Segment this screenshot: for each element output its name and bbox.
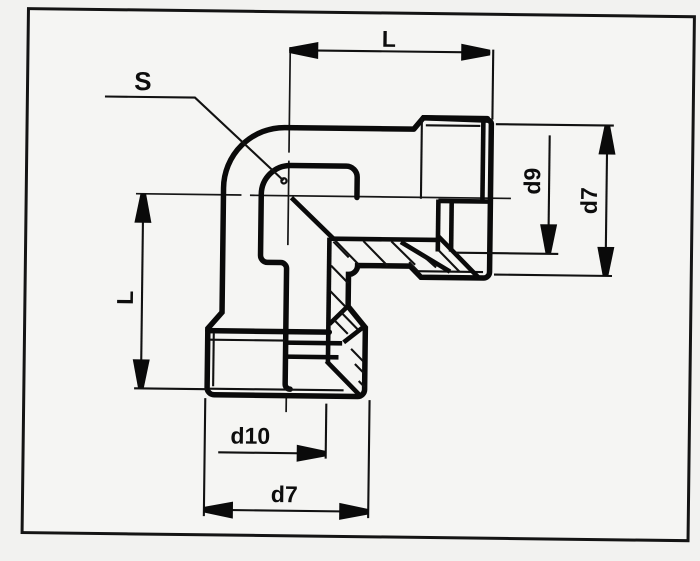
right nut inner end face line [480,121,486,201]
right nut cone line 2 [437,236,479,278]
hatch lines bottom nut upper right [334,312,358,334]
dimension L left: line and arrows [141,194,143,389]
leader S [104,96,284,180]
svg-text:d9: d9 [519,168,545,195]
thread band lower bottom leg [285,354,338,359]
thread band upper bottom leg [286,340,342,345]
bottom nut cone line 2 [344,327,364,343]
dimension d7 bottom: extensions [204,398,370,518]
svg-text:L: L [112,291,138,305]
right nut chamfer line bottom [417,270,483,273]
right nut cone line [401,242,451,272]
bottom nut inner left wall [212,333,215,386]
bottom nut cone chamfer [326,361,361,396]
hatch lines leg right wall [330,242,349,307]
dimension d9 extension [455,253,558,254]
dimension d7 right: line and arrows [606,126,608,276]
elbow bore inner contour [259,165,357,390]
bottom nut inner bottom line [209,389,343,391]
leader S dot [281,178,286,183]
hatch lines right nut pocket [409,250,460,273]
svg-text:d7: d7 [271,481,298,507]
bottom nut cone line 1 [329,306,347,324]
elbow body outer contour [207,115,491,398]
dimension L left: bottom extension [134,387,206,390]
dimension d9: line and arrow [548,135,549,253]
svg-text:S: S [134,66,152,96]
svg-text:L: L [382,26,396,52]
dimension d7 right: extensions [494,124,614,276]
right nut left face line [420,118,423,198]
right union nut top face edge [423,115,487,121]
centerline vertical axis [286,47,291,412]
bottom nut top edge [208,331,329,332]
section cut vertical edge [328,238,330,362]
svg-text:d10: d10 [230,422,270,448]
hatch lines bottom nut lower right [351,349,365,387]
thread crest line horizontal leg [331,239,436,240]
section cut diagonal at inner corner [291,198,334,239]
centerline horizontal axis [136,194,511,199]
hatch lines horizontal band [335,241,415,266]
right nut chamfer line top [426,124,480,127]
right nut internal shoulder ledge [438,199,489,204]
bottom nut inner line left [210,339,285,342]
right stub end face [435,199,440,251]
dimension L top: extension right [491,50,494,120]
dimension d10: line and arrow [218,452,325,453]
dimension d10: extension [325,404,328,459]
dimension d7 bottom: line and arrows [204,510,368,512]
right nut internal shoulder [449,201,454,251]
svg-text:d7: d7 [576,187,602,214]
dimension L top: line and arrows [289,50,490,52]
